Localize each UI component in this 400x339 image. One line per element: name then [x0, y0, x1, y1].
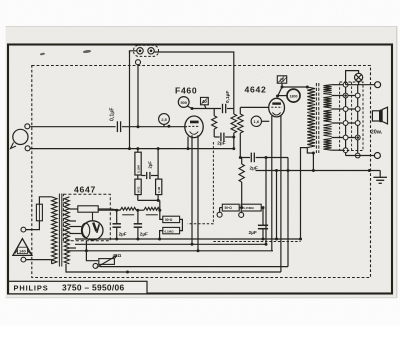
svg-text:140: 140 — [19, 248, 26, 253]
svg-text:4642: 4642 — [245, 85, 267, 95]
output transformer secondary s1 — [323, 85, 331, 95]
wire grid resistor down — [239, 133, 241, 158]
capacitor 2uF output stage — [261, 208, 263, 226]
input terminal upper — [25, 124, 30, 129]
capacitor 0,1uF coupling — [222, 104, 224, 113]
wire ladder bottom — [138, 199, 160, 201]
svg-text:2µF: 2µF — [140, 232, 148, 237]
svg-text:1,6: 1,6 — [254, 119, 260, 124]
wire heater 3 — [66, 264, 281, 272]
resistor box 50k bleeder — [160, 210, 163, 219]
mains transformer core — [58, 194, 60, 267]
capacitor 0,1uF input — [116, 121, 118, 132]
pickup transducer symbol — [13, 129, 28, 144]
svg-text:50ºΩ: 50ºΩ — [225, 206, 233, 210]
wire AF drop right — [287, 158, 289, 267]
svg-text:F460: F460 — [175, 86, 197, 96]
valve F460 — [185, 116, 203, 138]
input terminal lower — [25, 146, 30, 151]
mains transformer primary — [52, 197, 57, 264]
earth ground symbol — [379, 171, 381, 178]
svg-text:48Ω: 48Ω — [113, 253, 122, 258]
wire output top — [346, 84, 375, 86]
output transformer secondary s2 — [323, 97, 331, 109]
output transformer primary — [307, 87, 315, 148]
pilot lamp — [346, 71, 359, 85]
secondary tap upper — [69, 220, 76, 222]
svg-text:40: 40 — [202, 99, 207, 104]
capacitor ladder 2uF — [146, 172, 148, 179]
wire fuse to primary — [39, 197, 51, 204]
aerial plug pin right — [148, 48, 154, 54]
mains terminal 1 — [21, 227, 26, 232]
rheostat 48 ohm — [93, 263, 98, 268]
valve 4642 — [269, 98, 285, 117]
svg-text:500: 500 — [180, 100, 187, 105]
resistor HT series — [78, 206, 98, 212]
valve F460 lead heater — [197, 135, 199, 251]
rectifier shield dashed box — [63, 194, 110, 241]
valve F460 lead anode — [191, 135, 193, 244]
wire plug left down — [129, 51, 131, 149]
wire rail 244 — [75, 243, 266, 245]
wire box40 down to grid wire — [204, 105, 206, 109]
svg-text:3750 – 5950/06: 3750 – 5950/06 — [62, 283, 124, 293]
resistor box lower right — [156, 179, 162, 195]
rectifier valve 4647 — [82, 221, 103, 240]
resistor box 50k PU — [222, 204, 239, 211]
aerial plug pin left — [137, 48, 143, 54]
wire rail 239 — [75, 238, 301, 240]
tap terminals bus1 — [343, 82, 348, 87]
chassis shield dashed box — [32, 66, 371, 278]
svg-text:2µF: 2µF — [249, 230, 257, 236]
wire heater to rheostat — [86, 251, 98, 261]
svg-text:4647: 4647 — [74, 185, 96, 195]
wire earth rail — [256, 170, 381, 172]
svg-text:50ºΩ: 50ºΩ — [137, 186, 141, 193]
choke filter 1 — [120, 207, 136, 210]
wire cathode 4642 down — [276, 171, 278, 240]
svg-text:50ºΩ: 50ºΩ — [165, 218, 173, 222]
capacitor 2uF AF coupling — [250, 153, 252, 163]
wire ladder right branch — [157, 149, 159, 180]
svg-text:0,1M: 0,1M — [157, 186, 161, 193]
resistor box 0,15M upper — [135, 152, 141, 175]
voltage selector triangle 140 — [13, 239, 32, 256]
wire heater 2 — [100, 266, 289, 268]
wire heater junction — [85, 241, 87, 251]
output transformer secondary s5 — [323, 139, 331, 151]
resistor box 0,15M PU — [241, 204, 261, 211]
svg-text:0,15M: 0,15M — [137, 165, 141, 173]
tap bus 1 — [345, 85, 347, 156]
resistor grid coupling — [238, 114, 244, 133]
pencil smudge — [83, 50, 92, 54]
capacitor 2uF smoothing 1 — [116, 210, 118, 224]
wire primary bottom to HT — [301, 148, 308, 239]
svg-text:25: 25 — [280, 78, 285, 83]
circle value 500 — [178, 97, 189, 108]
svg-text:0,15MΩ: 0,15MΩ — [243, 206, 254, 210]
resistor box 0,1M bleeder — [180, 219, 183, 230]
tap wires — [332, 84, 346, 86]
resistor screen F460 — [213, 109, 215, 116]
wire input top — [30, 126, 115, 128]
tap terminals bus2 — [355, 93, 360, 98]
valve 4642 lead 2 — [280, 115, 282, 272]
svg-text:0,1µF: 0,1µF — [225, 91, 231, 103]
wire heater 1 — [66, 250, 273, 252]
wire HT rail — [98, 209, 120, 211]
capacitor 2uF screen — [220, 133, 222, 142]
svg-text:PHILIPS: PHILIPS — [14, 284, 49, 293]
junction dots — [137, 125, 140, 128]
svg-text:2µF: 2µF — [217, 141, 225, 147]
resistor grid leak 4642 — [239, 164, 244, 182]
PU terminal 1 — [217, 212, 222, 217]
circle value 1,6 — [251, 116, 261, 126]
speaker — [372, 111, 379, 121]
mains transformer secondary — [64, 197, 69, 264]
fuse — [36, 204, 42, 221]
aerial plug dashed outline — [134, 45, 159, 56]
resistor screen feed — [233, 109, 235, 115]
box value 25 — [277, 76, 286, 83]
resistor box lower left — [135, 179, 141, 195]
svg-text:20w.: 20w. — [371, 130, 383, 136]
aerial tap terminal — [136, 60, 141, 65]
output terminal top — [375, 82, 381, 88]
wire screen drop — [265, 158, 267, 245]
wire grid cap F460 — [192, 108, 221, 110]
wire aerial tap down — [137, 65, 139, 127]
svg-text:2µF: 2µF — [119, 232, 127, 237]
tap bus 2 — [357, 85, 359, 156]
output transformer core — [315, 83, 317, 153]
valve F460 lead cathode — [187, 137, 189, 149]
svg-text:2,5: 2,5 — [161, 117, 167, 122]
valve 4642 lead 1 — [271, 116, 273, 251]
output terminal bottom — [374, 153, 380, 159]
wire anode top 4642 — [282, 86, 307, 88]
output transformer secondary s4 — [323, 124, 331, 137]
mains terminal 2 — [21, 257, 26, 262]
wire grid to valve 4642 — [240, 106, 268, 108]
choke filter 2 — [144, 207, 160, 210]
shield partition dashed — [187, 142, 213, 224]
svg-text:2µF: 2µF — [147, 161, 152, 169]
output transformer secondary s3 — [323, 110, 331, 122]
PU terminal 2 — [239, 212, 244, 217]
shield partition dashed bottom — [213, 241, 300, 243]
svg-text:0,1µF: 0,1µF — [110, 108, 116, 121]
tap selector dashed box — [340, 82, 363, 151]
wire top feed — [130, 51, 137, 54]
secondary tap lower — [69, 247, 76, 249]
wire output bottom — [346, 155, 375, 157]
title box — [9, 281, 148, 294]
circle value 2.5 — [159, 114, 170, 125]
svg-text:1800: 1800 — [290, 94, 298, 98]
box value 40 — [201, 97, 209, 104]
wire ground rail upper — [30, 148, 233, 150]
svg-text:0,1MΩ: 0,1MΩ — [165, 229, 175, 233]
capacitor 2uF smoothing 2 — [137, 210, 139, 224]
outer border frame — [8, 45, 392, 294]
circle value 1800 — [287, 89, 300, 102]
